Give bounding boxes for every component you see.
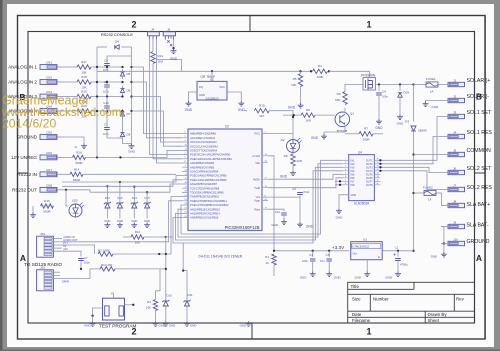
svg-text:GND: GND [240, 323, 246, 327]
ground R8 [292, 166, 294, 171]
diode D4 [115, 45, 119, 49]
resistor R20 [77, 109, 91, 113]
wire JS1 ptt [52, 245, 95, 254]
svg-text:Tvdd: Tvdd [254, 186, 260, 190]
svg-text:1: 1 [366, 20, 371, 30]
wire bus PIC to U4 line1 [181, 160, 343, 234]
capacitor C6 vcap [297, 193, 303, 195]
svg-text:R7: R7 [364, 126, 368, 130]
svg-text:D3: D3 [405, 120, 409, 124]
LED D2 [287, 140, 300, 153]
resistor R21 [152, 40, 154, 51]
svg-text:14: 14 [377, 173, 379, 175]
wire an3 to PIC [132, 111, 183, 146]
svg-text:GND: GND [238, 108, 246, 112]
svg-text:J7: J7 [453, 183, 457, 187]
wire JS1 audio in [52, 238, 62, 240]
wire J7 to U4 out4 [380, 171, 441, 190]
svg-text:TMS/RPB10/CN16/RB10: TMS/RPB10/CN16/RB10 [190, 195, 220, 199]
svg-text:C5: C5 [326, 253, 330, 257]
svg-text:SOSCI/TTCK/CN0/RA4: SOSCI/TTCK/CN0/RA4 [190, 149, 218, 153]
diode D3 [411, 126, 416, 131]
svg-text:U4: U4 [358, 150, 362, 154]
svg-text:GROUND: GROUND [17, 135, 38, 140]
svg-text:C7: C7 [104, 123, 108, 127]
wires zener row nets [62, 176, 182, 182]
wire an1 to PIC [132, 82, 183, 138]
ground bottom D11 [184, 321, 190, 326]
wire analog in 1 [63, 66, 77, 68]
wire Q1 emitter to ground [324, 126, 345, 135]
resistor R15 rs232 out [41, 204, 54, 208]
capacitor C4 [378, 85, 380, 92]
svg-text:10K: 10K [291, 83, 296, 87]
svg-text:GND: GND [128, 150, 136, 154]
svg-text:GND: GND [185, 108, 193, 112]
svg-text:SOL1 RES: SOL1 RES [467, 130, 493, 136]
ground below R15 [32, 206, 34, 213]
transistor Q3 opto led [69, 204, 82, 217]
svg-text:Size: Size [352, 296, 361, 301]
svg-text:ULN2803A: ULN2803A [354, 202, 370, 206]
svg-text:GND: GND [336, 216, 344, 220]
svg-text:U2: U2 [225, 125, 229, 129]
ground chassis symbol [81, 144, 87, 149]
svg-text:GND: GND [288, 106, 296, 110]
wire Q2 source rail [369, 77, 371, 79]
svg-text:AVss: AVss [254, 207, 261, 211]
svg-text:Vss: Vss [256, 195, 261, 199]
wire R4 to Q2 [329, 71, 370, 77]
wire R3 top [156, 269, 161, 291]
svg-text:AN12/RPB7/CN23/RB7: AN12/RPB7/CN23/RB7 [190, 182, 218, 186]
resistor R3 [155, 291, 157, 299]
svg-text:PGEC2/TMS/RPB12/CN14/RB12: PGEC2/TMS/RPB12/CN14/RB12 [190, 203, 229, 207]
capacitor C7 [104, 128, 110, 130]
wire JS1 12v [52, 251, 81, 256]
svg-text:J5: J5 [167, 27, 171, 31]
wire PIC pin to led column [268, 133, 293, 135]
svg-text:100n: 100n [84, 261, 90, 265]
svg-text:R9: R9 [306, 108, 310, 112]
wire JS2 pins [52, 271, 60, 273]
svg-text:SOL2 RES: SOL2 RES [467, 185, 493, 191]
svg-text:10u: 10u [320, 259, 325, 263]
svg-text:C1: C1 [395, 246, 399, 250]
svg-text:Vcap: Vcap [254, 199, 260, 203]
resistor R8 [291, 154, 295, 166]
svg-text:CN2: CN2 [46, 76, 52, 80]
svg-text:4700u: 4700u [400, 263, 408, 267]
svg-text:8: 8 [345, 183, 346, 185]
wire test header right [125, 304, 134, 306]
wire U1 vdd to rail [211, 71, 213, 81]
resistor R2 [98, 252, 113, 256]
wire 12v unreg row [63, 156, 73, 158]
svg-text:AN5/RPB3/CN7/RB3: AN5/RPB3/CN7/RB3 [190, 165, 215, 169]
svg-text:C4: C4 [382, 90, 386, 94]
wire analog in 3 [63, 96, 77, 98]
inner border frame [28, 32, 475, 324]
svg-text:GND: GND [311, 136, 319, 140]
capacitor C1 4700u [397, 251, 399, 257]
svg-text:Title: Title [351, 284, 360, 289]
svg-text:CN6: CN6 [46, 151, 52, 155]
svg-text:D2: D2 [281, 138, 285, 142]
svg-text:10K: 10K [146, 306, 151, 310]
svg-text:10K: 10K [135, 241, 140, 245]
svg-text:C7: C7 [84, 256, 88, 260]
svg-text:3: 3 [345, 166, 346, 168]
resistor R19 [77, 94, 91, 98]
svg-text:GND: GND [84, 323, 90, 327]
svg-text:IN8: IN8 [351, 184, 356, 187]
svg-text:GND: GND [385, 276, 393, 280]
svg-text:R8: R8 [284, 154, 288, 158]
svg-text:L78L33ACZ: L78L33ACZ [353, 244, 370, 248]
wire U1 gnd pin [189, 92, 198, 101]
svg-text:AN9/RPB15/CN11/RB15: AN9/RPB15/CN11/RB15 [190, 216, 219, 220]
wire C3 line [56, 271, 58, 273]
svg-text:6: 6 [345, 176, 346, 178]
svg-text:AN4/RPB2/CN6/RB2: AN4/RPB2/CN6/RB2 [190, 161, 215, 165]
svg-text:13: 13 [377, 176, 379, 178]
wire vdd pin to 3.3V rail [268, 156, 274, 251]
svg-text:JS1: JS1 [40, 232, 46, 236]
U2 right pin stubs [262, 134, 268, 210]
svg-text:GND: GND [190, 323, 196, 327]
svg-text:SLA BAT+: SLA BAT+ [467, 202, 491, 208]
svg-text:Rev: Rev [456, 296, 465, 301]
ground bottom R3 [153, 321, 159, 326]
svg-text:J1: J1 [453, 78, 457, 82]
svg-text:GND: GND [397, 122, 405, 126]
transistor Q1 [335, 112, 350, 127]
svg-text:GND: GND [375, 126, 383, 130]
svg-text:18: 18 [377, 159, 379, 161]
wire J3 to U4 out1 [380, 117, 441, 161]
svg-text:SOLAR (-: SOLAR (- [467, 94, 490, 100]
wire J4 pin3 down [156, 40, 181, 72]
svg-text:GND: GND [271, 223, 279, 227]
wire U4 in8 stub [335, 184, 343, 186]
svg-text:CN7: CN7 [46, 168, 52, 172]
ground clamp rail [129, 144, 135, 149]
svg-text:1A: 1A [430, 90, 434, 94]
svg-text:VCC: VCC [219, 85, 225, 89]
svg-text:+3.3Vd: +3.3Vd [252, 154, 261, 158]
resistor R16 [73, 155, 86, 159]
wire JS1 audio out [52, 241, 62, 243]
svg-text:100n: 100n [302, 259, 308, 263]
svg-text:4: 4 [345, 169, 346, 171]
svg-text:11: 11 [377, 183, 379, 185]
wire PIC to U4 in6 [268, 178, 343, 188]
capacitor C5 [328, 251, 330, 257]
svg-text:GROUND: GROUND [467, 239, 490, 245]
svg-text:R16: R16 [76, 150, 82, 154]
wire U3 gnd [366, 260, 368, 272]
svg-text:R4: R4 [318, 64, 322, 68]
svg-text:R5: R5 [293, 77, 297, 81]
svg-text:100n: 100n [103, 132, 109, 136]
svg-text:16: 16 [377, 166, 379, 168]
resistor R18 [77, 80, 91, 84]
svg-text:R18: R18 [81, 75, 87, 79]
wire 3.3V rail [274, 250, 349, 252]
svg-text:2: 2 [131, 20, 136, 30]
svg-text:100n: 100n [103, 90, 109, 94]
svg-text:R15: R15 [44, 199, 50, 203]
svg-text:TCK/CTED2/PMA11/RB8: TCK/CTED2/PMA11/RB8 [190, 186, 220, 190]
svg-text:AVDD: AVDD [253, 177, 260, 181]
resistor R13 [100, 267, 115, 271]
svg-text:D5: D5 [127, 133, 131, 137]
svg-text:1K: 1K [265, 261, 269, 265]
svg-text:GND: GND [300, 276, 308, 280]
wire rs232 out row [63, 190, 90, 192]
svg-text:7: 7 [345, 180, 346, 182]
svg-text:OSC2/CLKO/CN29/RA3: OSC2/CLKO/CN29/RA3 [190, 144, 219, 148]
svg-text:J8: J8 [453, 199, 457, 203]
svg-text:PGED1/AN10/RPB5/CN13/RB5: PGED1/AN10/RPB5/CN13/RB5 [190, 174, 227, 178]
wire J9 J10 to ground [441, 227, 444, 253]
svg-text:FUSE1: FUSE1 [426, 77, 436, 81]
no-connect marks J5 [167, 40, 172, 46]
capacitor C12 bypass [268, 209, 284, 211]
svg-text:PGC: PGC [254, 132, 260, 136]
wires clamp diodes chain [121, 66, 123, 68]
svg-text:12: 12 [377, 180, 379, 182]
svg-text:DQ: DQ [199, 85, 203, 89]
capacitor C8 [104, 64, 110, 66]
svg-text:PGEC1/AN11/RPB6/CN14/RB6: PGEC1/AN11/RPB6/CN14/RB6 [190, 178, 227, 182]
wire U4 in7 stub [335, 180, 343, 182]
wire 12V rail [97, 70, 311, 72]
wire bus PIC to U4 line3 [176, 167, 343, 240]
svg-text:R6: R6 [337, 92, 341, 96]
svg-text:FUSE2: FUSE2 [423, 186, 433, 190]
svg-text:J5: J5 [453, 148, 457, 152]
diode D7 [120, 112, 124, 116]
svg-text:1: 1 [366, 327, 371, 337]
svg-text:D8: D8 [127, 89, 131, 93]
svg-text:CN1: CN1 [46, 61, 52, 65]
svg-text:GND: GND [280, 175, 288, 179]
wire PIC to U4 in5 [268, 174, 343, 179]
svg-text:Number: Number [373, 296, 389, 301]
svg-text:SB540: SB540 [418, 129, 427, 133]
ground bottom D10 [163, 321, 169, 326]
capacitor C3 [312, 251, 314, 257]
svg-text:R14: R14 [74, 167, 80, 171]
svg-text:GND: GND [131, 219, 137, 223]
svg-text:15: 15 [377, 169, 379, 171]
svg-text:C10: C10 [103, 101, 109, 105]
svg-text:GND: GND [104, 219, 110, 223]
svg-text:100n: 100n [382, 95, 388, 99]
svg-text:GND: GND [169, 323, 175, 327]
wire ground row to chassis [63, 137, 84, 144]
resistor R12 [131, 235, 144, 239]
wire R9 to Q1 base [315, 114, 335, 116]
svg-text:AN0/VREF+/CN2/RA0: AN0/VREF+/CN2/RA0 [190, 132, 216, 136]
svg-text:J6: J6 [453, 166, 457, 170]
svg-text:GND: GND [199, 93, 205, 97]
diode D6 [120, 72, 124, 76]
wire SLA rail down [413, 85, 415, 122]
resistor R14 [70, 172, 83, 176]
ground U1 left [186, 101, 192, 106]
wire J2 to ground [426, 101, 442, 102]
svg-text:Filename: Filename [352, 318, 371, 323]
svg-text:J4: J4 [151, 27, 155, 31]
resistor R1 [272, 254, 276, 265]
wire J6 to U4 out3 [380, 167, 441, 172]
svg-text:100R: 100R [362, 137, 370, 141]
svg-text:CN8: CN8 [46, 183, 52, 187]
svg-text:U3: U3 [363, 238, 367, 242]
wire bus PIC to U4 line4 [173, 171, 343, 243]
wire an2 to PIC [132, 97, 183, 143]
resistor R4 [310, 70, 312, 72]
wire J4 pin1 down [150, 40, 182, 155]
svg-text:GND: GND [170, 57, 178, 61]
svg-text:GND: GND [351, 194, 357, 197]
U2 left pin stubs [182, 134, 188, 218]
svg-text:GND: GND [354, 276, 362, 280]
ground R5 [300, 87, 302, 104]
svg-text:J10: J10 [453, 237, 458, 241]
svg-text:J4: J4 [453, 130, 457, 134]
svg-text:R21: R21 [158, 54, 164, 58]
svg-text:AN10/RPB14/CN12/RB14: AN10/RPB14/CN12/RB14 [190, 212, 221, 216]
svg-text:SOSCO/RPA4/CN0/RB4: SOSCO/RPA4/CN0/RB4 [190, 170, 219, 174]
svg-text:JS2: JS2 [40, 266, 46, 270]
svg-text:TDO/SDA1/RPB9/CN21/RB9: TDO/SDA1/RPB9/CN21/RB9 [190, 191, 224, 195]
svg-text:COMMON: COMMON [467, 148, 491, 154]
U4 ground pin [339, 195, 349, 209]
wire vcap pin to C6 [268, 196, 300, 198]
svg-text:100K: 100K [316, 75, 323, 79]
svg-text:560R: 560R [75, 161, 83, 165]
svg-text:TEST PROGRAM: TEST PROGRAM [99, 324, 137, 329]
svg-text:D6: D6 [127, 72, 131, 76]
svg-text:ANALOG IN 1: ANALOG IN 1 [8, 65, 37, 70]
svg-text:Vbb: Vbb [255, 161, 260, 165]
fuse FUSE2 [414, 192, 425, 194]
svg-text:2014/6/20: 2014/6/20 [2, 117, 56, 131]
wire rs232 in row [63, 173, 70, 175]
wire bus PIC to U4 line2 [178, 164, 343, 237]
svg-text:+3.3V: +3.3V [332, 245, 345, 250]
capacitor C7 radio [78, 259, 84, 261]
wire rs232 out to led [66, 190, 69, 206]
wire J5 common [414, 154, 442, 156]
svg-text:D7: D7 [127, 112, 131, 116]
svg-text:C12: C12 [275, 210, 281, 214]
title block [348, 282, 475, 323]
svg-text:47uF: 47uF [303, 190, 310, 194]
svg-text:1: 1 [345, 159, 346, 161]
svg-text:RS232 OUT: RS232 OUT [12, 188, 37, 193]
svg-text:CN5: CN5 [46, 131, 52, 135]
svg-text:J2: J2 [453, 94, 457, 98]
svg-text:12V: 12V [63, 247, 68, 251]
svg-text:5: 5 [345, 173, 346, 175]
svg-text:560R: 560R [73, 178, 81, 182]
svg-text:ANALOG IN 2: ANALOG IN 2 [8, 80, 37, 85]
svg-text:D4-D11 1N4148 3V3 ZENER: D4-D11 1N4148 3V3 ZENER [199, 255, 243, 259]
svg-text:PF9540N: PF9540N [361, 73, 376, 77]
svg-text:PGED3/C2IN+/AN2/RPA/CN4/RB0: PGED3/C2IN+/AN2/RPA/CN4/RB0 [190, 153, 231, 157]
wire D4 to rail B [122, 46, 132, 48]
svg-text:D1N: D1N [404, 91, 410, 95]
svg-text:DS18B20: DS18B20 [206, 96, 219, 100]
svg-text:AN1/VREF-/CN3/RA1: AN1/VREF-/CN3/RA1 [190, 136, 216, 140]
wire clamp rail B [131, 47, 133, 144]
resistor R7 [359, 132, 373, 136]
wire an0 to PIC [132, 67, 183, 134]
svg-text:PIC32MX150F12B: PIC32MX150F12B [225, 225, 260, 230]
svg-text:R17: R17 [81, 60, 87, 64]
svg-text:R12: R12 [135, 230, 141, 234]
resistor R17 [77, 65, 91, 69]
wire 12v riser to rail [96, 47, 98, 157]
svg-text:Date: Date [352, 312, 362, 317]
wire led to R8 [292, 134, 294, 140]
frame overstrike right [475, 16, 486, 340]
capacitor C9 [104, 85, 110, 87]
svg-text:OSC1/CLKI/CN30/RA2: OSC1/CLKI/CN30/RA2 [190, 140, 217, 144]
svg-text:D4: D4 [115, 40, 119, 44]
svg-text:C3: C3 [309, 253, 313, 257]
svg-text:R10: R10 [259, 104, 265, 108]
wire clamp rail A [97, 46, 107, 48]
diode D1 [399, 85, 401, 91]
svg-text:2: 2 [345, 162, 346, 164]
svg-text:A: A [476, 253, 482, 263]
svg-text:1K8: 1K8 [305, 119, 311, 123]
resistor R6 [344, 108, 346, 113]
resistor R9 [283, 114, 301, 116]
svg-text:J3: J3 [453, 110, 457, 114]
svg-text:RS232 CONSOLE: RS232 CONSOLE [101, 32, 133, 37]
svg-text:PGEC3/AN3/C2IN+/RPB1/CN5/RB1: PGEC3/AN3/C2IN+/RPB1/CN5/RB1 [190, 157, 232, 161]
svg-text:PGED2/TDI/RPB11/CN15/RB11: PGED2/TDI/RPB11/CN15/RB11 [190, 199, 227, 203]
svg-text:GND: GND [431, 255, 437, 259]
svg-text:Sheet: Sheet [428, 318, 440, 323]
svg-text:GND: GND [144, 219, 150, 223]
svg-text:R13 100: R13 100 [101, 263, 113, 267]
svg-text:17: 17 [377, 162, 379, 164]
svg-text:R3: R3 [147, 300, 151, 304]
ground U1 right [238, 101, 244, 106]
wire analog in 2 [63, 81, 77, 83]
svg-text:GND: GND [432, 105, 440, 109]
svg-text:1K8: 1K8 [158, 60, 164, 64]
svg-text:22R: 22R [297, 159, 303, 163]
capacitor C10 [104, 106, 110, 108]
svg-text:12V UNREG: 12V UNREG [11, 155, 37, 160]
resistor R5 [300, 71, 302, 73]
svg-text:SOL1 SET: SOL1 SET [467, 110, 493, 116]
svg-text:56K: 56K [335, 98, 340, 102]
diode D8 [120, 88, 124, 92]
wire analog in 4 [63, 110, 77, 112]
fuse FUSE1 [414, 84, 427, 86]
svg-text:LED: LED [72, 199, 79, 203]
